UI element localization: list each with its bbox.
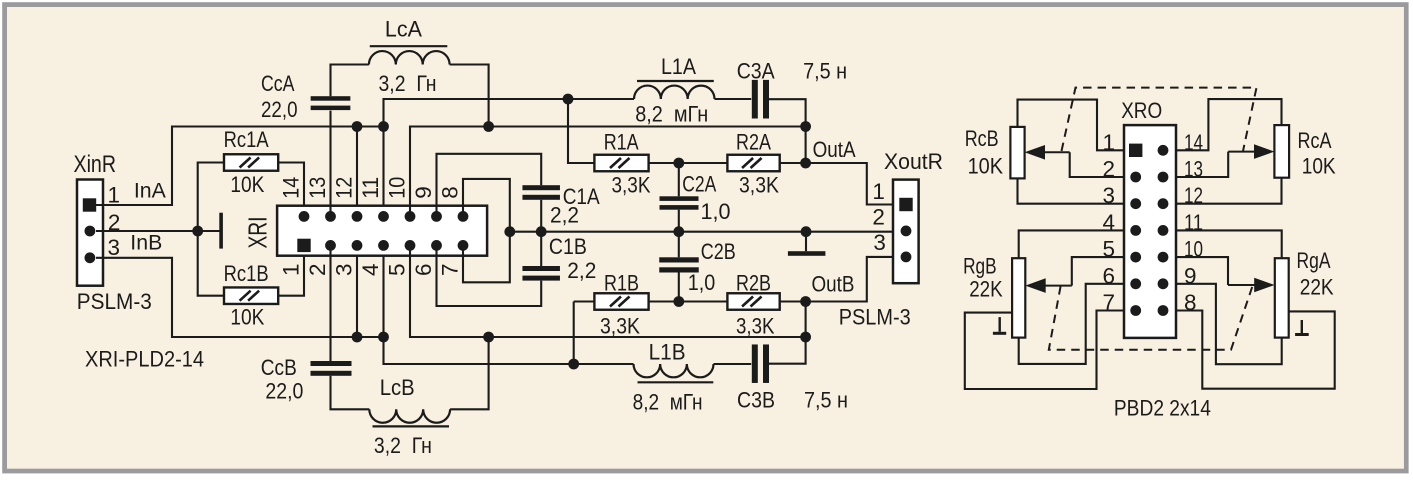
XRI bottom pin 6	[431, 240, 442, 251]
svg-text:5: 5	[385, 264, 410, 277]
common terminator bar (center)	[805, 232, 807, 252]
wire XRI pin12 stub	[356, 127, 358, 217]
svg-text:2: 2	[872, 205, 885, 230]
wire XRI pin8 to bus	[463, 179, 510, 232]
svg-text:R2A: R2A	[736, 129, 771, 154]
wire XRI pin2 to CcB	[329, 245, 331, 361]
svg-text:XoutR: XoutR	[884, 149, 943, 174]
wire RcA bottom to XRO pin12	[1176, 178, 1282, 204]
XRI bottom pin 7	[458, 240, 469, 251]
XRO pin 14	[1158, 145, 1169, 156]
wire LcB right to OutB line	[450, 337, 489, 409]
node C2A/C2B bus junction	[673, 226, 684, 237]
svg-text:RcA: RcA	[1298, 128, 1332, 153]
capacitor CcA (22,0) plates	[311, 96, 351, 110]
XRO pin 4	[1130, 225, 1141, 236]
svg-text:XRI: XRI	[243, 217, 273, 249]
XRO pin 12	[1158, 198, 1169, 209]
wire XRI pin3 stub	[356, 245, 358, 337]
svg-text:3,3K: 3,3K	[612, 173, 651, 198]
wire C2B bottom leg	[678, 273, 680, 302]
resistor Rc1A	[224, 154, 278, 171]
wire InA net (pin1 to line y=126.5)	[96, 127, 384, 206]
inductor L1B (8,2 mGn)	[634, 364, 714, 377]
node junction pin4/InB	[378, 332, 389, 343]
wire CcA to LcA left	[331, 65, 369, 97]
XRO pin 7	[1130, 305, 1141, 316]
node OutB	[800, 296, 811, 307]
wire XRI pin4 stub	[382, 245, 384, 337]
svg-text:3,3K: 3,3K	[736, 314, 775, 339]
svg-text:12: 12	[332, 177, 357, 199]
svg-text:R1B: R1B	[604, 270, 639, 295]
svg-text:6: 6	[411, 264, 436, 277]
XRI bottom pin 2	[325, 240, 336, 251]
svg-text:2: 2	[305, 264, 330, 277]
svg-text:R2B: R2B	[736, 270, 771, 295]
wire XRI pin13 to CcA	[329, 111, 331, 217]
XinR pin 1 (square)	[83, 198, 96, 211]
svg-text:14: 14	[279, 177, 304, 199]
svg-text:RgA: RgA	[1297, 248, 1331, 273]
wire R1A to R2A	[649, 162, 728, 164]
node junction pin3/InB	[352, 332, 363, 343]
XRI top pin 9	[431, 211, 442, 222]
svg-text:8,2 мГн: 8,2 мГн	[633, 390, 703, 415]
svg-text:RgB: RgB	[963, 254, 997, 279]
svg-text:3,3K: 3,3K	[600, 314, 640, 339]
wire RgB wiper to XRO pin5	[1072, 257, 1124, 286]
L1A core line	[637, 80, 714, 82]
svg-text:1: 1	[279, 264, 304, 277]
potentiometer RgB body	[1012, 258, 1025, 337]
common terminator bar (left)	[219, 213, 223, 249]
svg-text:3: 3	[108, 235, 121, 260]
resistor R1A	[594, 155, 648, 172]
wire node A1 vertical to R1A	[568, 99, 594, 163]
svg-text:10: 10	[385, 177, 410, 199]
wire C1A bottom leg	[540, 200, 542, 232]
wire OutB to XoutR pin3	[806, 257, 893, 302]
svg-text:1,0: 1,0	[688, 270, 716, 295]
wire XRI pin5 to OutB node (line y=337)	[410, 245, 806, 337]
svg-text:11: 11	[358, 177, 383, 199]
wire C3B to OutB node	[769, 302, 806, 364]
svg-text:RcB: RcB	[965, 126, 999, 151]
capacitor C3A (7,5 n) plates	[752, 80, 769, 119]
svg-text:3: 3	[873, 230, 886, 255]
connector XRO (PBD2 2x14)	[1124, 125, 1176, 338]
resistor R2B	[727, 293, 779, 310]
XRO pin 6	[1130, 278, 1141, 289]
svg-text:L1B: L1B	[649, 340, 686, 365]
svg-text:CcB: CcB	[261, 355, 297, 380]
svg-text:InA: InA	[134, 180, 166, 203]
connector XRI (XRI-PLD2-14)	[277, 206, 487, 256]
wire C2A bottom leg to common bus	[678, 210, 680, 232]
connector XinR (PSLM-3)	[77, 180, 103, 286]
svg-text:C2B: C2B	[701, 239, 736, 264]
svg-text:3: 3	[332, 264, 357, 277]
XinR pin 2	[85, 226, 96, 237]
svg-text:XRI-PLD2-14: XRI-PLD2-14	[85, 347, 204, 372]
XoutR pin 2	[901, 226, 912, 237]
XRO pin 10	[1158, 252, 1169, 263]
wire LcA right to OutA line	[450, 65, 489, 127]
svg-text:2,2: 2,2	[567, 258, 596, 283]
node common-bar bus junction	[801, 226, 812, 237]
XRO pin 9	[1158, 278, 1169, 289]
XRO pin 5	[1130, 252, 1141, 263]
svg-text:10K: 10K	[968, 154, 1004, 179]
XinR pin 3	[85, 252, 96, 263]
wire RcB top to XRO pin1	[1018, 100, 1125, 151]
XoutR pin 3	[901, 252, 912, 263]
XRI bottom pin 4	[378, 240, 389, 251]
XRI pin 1 (square)	[297, 239, 310, 252]
wire RcB wiper to XRO pin2	[1070, 152, 1124, 177]
XRI top pin 10	[405, 211, 416, 222]
node Rc1 common junction	[192, 226, 203, 237]
svg-text:1: 1	[872, 179, 885, 204]
wire node B1 vertical	[573, 302, 575, 365]
svg-text:22K: 22K	[969, 276, 1003, 301]
wire node A1 to L1A	[568, 98, 634, 100]
node A1 (L1A/R1A left)	[563, 94, 574, 105]
node B1 (L1B/R1B)	[568, 359, 579, 370]
svg-text:22K: 22K	[1300, 274, 1334, 299]
wire InB net (pin3 to line y=337)	[96, 258, 384, 337]
wire XRI pin7 to bus	[463, 232, 510, 283]
node LcB/OutB line junction	[483, 332, 494, 343]
XRI top pin 14	[299, 211, 310, 222]
XRO pin 8	[1158, 305, 1169, 316]
XRO pin 13	[1158, 172, 1169, 183]
wire Rc1A right leg to XRI pin14	[278, 163, 304, 217]
wire Rc1A left leg	[198, 163, 224, 232]
svg-text:XinR: XinR	[74, 151, 117, 178]
resistor Rc1B	[224, 287, 278, 304]
wire C3A to OutA node	[769, 99, 806, 163]
potentiometer RcA body	[1274, 125, 1289, 178]
resistor R1B	[594, 293, 648, 310]
svg-text:7,5 н: 7,5 н	[803, 59, 847, 84]
wire C2B top leg	[678, 232, 680, 258]
svg-text:8,2 мГн: 8,2 мГн	[635, 102, 708, 127]
svg-text:2,2: 2,2	[550, 203, 579, 228]
wire RgA wiper to XRO pin10	[1176, 257, 1228, 285]
XRI top pin 13	[325, 211, 336, 222]
capacitor C2A (1,0) plates	[660, 196, 699, 209]
connector XoutR (PSLM-3)	[893, 180, 919, 284]
svg-text:InB: InB	[130, 232, 162, 255]
wire RcB bottom to XRO pin3	[1018, 178, 1125, 203]
svg-text:7,5 н: 7,5 н	[804, 388, 848, 413]
wire CcB to LcB left	[331, 376, 370, 410]
svg-text:7: 7	[438, 264, 463, 277]
potentiometer RgA body	[1275, 258, 1289, 337]
LcA core line	[370, 45, 448, 47]
svg-text:R1A: R1A	[604, 129, 639, 154]
capacitor C2B (1,0) plates	[659, 257, 699, 272]
svg-text:XRO: XRO	[1121, 98, 1162, 123]
node junction pin11/InA	[378, 121, 389, 132]
wire node B1 to R1B	[574, 300, 595, 302]
node C2B bottom junction	[673, 296, 684, 307]
inductor L1A (8,2 mGn)	[634, 86, 714, 99]
inductor LcB (3,2 Gn)	[369, 409, 450, 422]
XRI bottom pin 3	[352, 240, 363, 251]
svg-text:1: 1	[108, 183, 121, 208]
wire C2A top leg	[678, 163, 680, 196]
svg-text:C3A: C3A	[737, 59, 775, 84]
svg-text:10K: 10K	[1302, 154, 1336, 179]
svg-text:C2A: C2A	[682, 172, 716, 197]
wire L1A to C3A	[715, 98, 752, 100]
XRO pin 3	[1130, 198, 1141, 209]
svg-text:C3B: C3B	[737, 388, 775, 413]
svg-text:PSLM-3: PSLM-3	[839, 305, 911, 330]
svg-text:OutA: OutA	[813, 137, 856, 162]
wire OutA to XoutR pin1	[806, 163, 893, 205]
wire XRI pin9 to C1A	[437, 154, 542, 217]
wire RgB top to XRO pin4	[1019, 230, 1124, 258]
capacitor C1A (2,2) plates	[522, 185, 560, 200]
svg-text:1,0: 1,0	[701, 199, 731, 224]
wire RcA top to XRO pin14	[1176, 99, 1282, 150]
common symbol at RgA	[1301, 320, 1303, 333]
node C2A top junction	[673, 158, 684, 169]
svg-text:3,3K: 3,3K	[739, 173, 779, 198]
LcB core line	[373, 425, 450, 427]
XoutR pin 1 (square)	[899, 198, 912, 211]
inductor LcA (3,2 Gn)	[369, 51, 450, 64]
XRI top pin 8	[458, 211, 469, 222]
svg-text:OutB: OutB	[812, 272, 855, 297]
XRO pin 2	[1130, 172, 1141, 183]
wire Rc1B right leg to XRI pin1	[278, 245, 304, 295]
wire RgB case line to XRO pin7	[965, 311, 1124, 390]
XRI top pin 12	[352, 211, 363, 222]
node C1A/C1B bus junction	[536, 226, 547, 237]
potentiometer RcB body	[1010, 127, 1024, 178]
XRI bottom pin 5	[405, 240, 416, 251]
svg-text:4: 4	[358, 264, 383, 277]
wire RgA case line to XRO pin8	[1176, 311, 1335, 389]
XRI top pin 11	[378, 211, 389, 222]
svg-text:C1B: C1B	[549, 234, 587, 259]
capacitor C1B (2,2) plates	[522, 266, 560, 281]
wire InB branch down to R1B/L1B line	[384, 337, 574, 364]
wire RgA bottom to XRO pin9	[1176, 284, 1282, 364]
wire Rc1B left leg	[198, 231, 224, 296]
RcA wiper arrow	[1228, 151, 1258, 153]
node junction pin12/InA	[352, 121, 363, 132]
node OutA	[800, 158, 811, 169]
svg-text:L1A: L1A	[661, 54, 696, 79]
wire R2A to OutA node	[780, 162, 806, 164]
capacitor C3B (7,5 n) plates	[752, 344, 769, 383]
wire XRI pin10 to OutA node (line y=126.5)	[410, 127, 806, 217]
wire L1B to C3B	[714, 363, 752, 365]
svg-text:13: 13	[305, 177, 330, 199]
XRO pin 1 (square)	[1129, 144, 1142, 157]
wire C1B top leg	[540, 232, 542, 266]
svg-text:PBD2 2x14: PBD2 2x14	[1114, 396, 1211, 421]
node pin7/pin8 bus junction	[504, 226, 515, 237]
node OutB line/vertical junction	[800, 332, 811, 343]
wire InA branch up to R1A/L1A line	[384, 99, 569, 127]
wire RcA wiper to XRO pin13	[1176, 152, 1228, 177]
wire RgA top to XRO pin11	[1176, 230, 1282, 258]
svg-text:8: 8	[438, 186, 463, 199]
node LcA/OutA line junction	[483, 121, 494, 132]
resistor R2A	[727, 155, 779, 172]
svg-text:3,2 Гн: 3,2 Гн	[379, 71, 437, 96]
wire R1B to R2B	[649, 300, 728, 302]
dashed coupling line RgB-RgA (bottom)	[1049, 286, 1252, 350]
common symbol at RgB	[999, 317, 1001, 332]
svg-text:10K: 10K	[230, 172, 264, 197]
wire XRI pin11 stub	[382, 127, 384, 217]
svg-text:22,0: 22,0	[265, 379, 303, 404]
svg-text:22,0: 22,0	[261, 97, 298, 122]
svg-text:Rc1A: Rc1A	[224, 127, 269, 152]
svg-text:Rc1B: Rc1B	[224, 261, 269, 286]
dashed coupling line RcB-RcA (top)	[1062, 88, 1257, 152]
wire C1B bottom leg to XRI pin6	[437, 245, 542, 306]
RgA wiper arrow	[1228, 284, 1258, 286]
svg-text:PSLM-3: PSLM-3	[77, 289, 152, 314]
wire RgB bottom to XRO pin6	[1019, 284, 1124, 364]
wire common bus to XoutR pin2	[510, 231, 893, 233]
svg-text:9: 9	[411, 186, 436, 199]
L1B core line	[638, 381, 714, 383]
wire node B1 to L1B	[574, 363, 634, 365]
svg-text:LcB: LcB	[380, 375, 415, 400]
RgB wiper arrow	[1041, 285, 1072, 287]
capacitor CcB (22,0) plates	[311, 361, 352, 376]
wire R2B to OutB node	[780, 300, 806, 302]
svg-text:3,2 Гн: 3,2 Гн	[374, 433, 432, 458]
svg-text:10K: 10K	[230, 305, 264, 330]
wire XinR pin2 common	[96, 230, 220, 232]
svg-text:CcA: CcA	[261, 71, 295, 96]
svg-text:LcA: LcA	[385, 17, 422, 42]
node OutA line/vertical junction	[800, 121, 811, 132]
RcB wiper arrow	[1040, 151, 1070, 153]
XRO pin 11	[1158, 225, 1169, 236]
